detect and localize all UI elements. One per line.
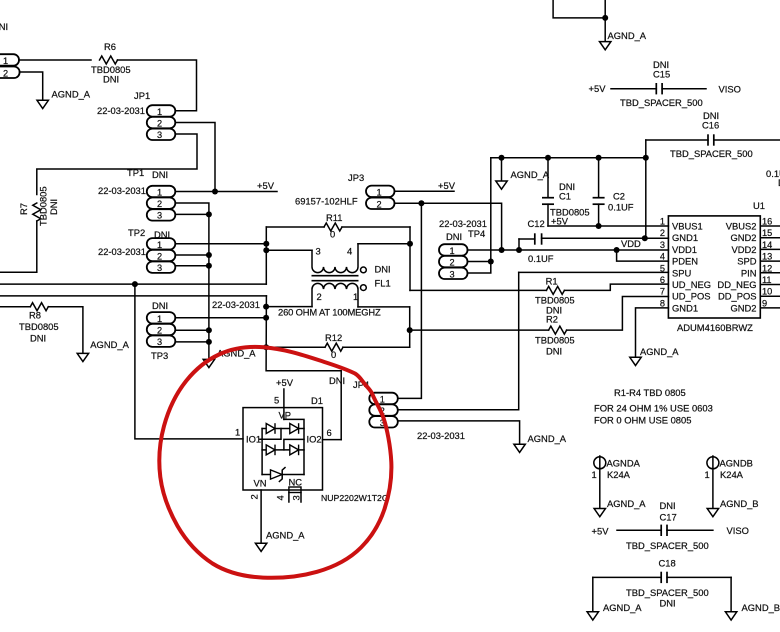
ground AGND_A (U1 pin8) (630, 357, 641, 365)
svg-text:2: 2 (377, 199, 382, 209)
resistor R7 (vertical) (33, 203, 41, 221)
svg-text:TBD_SPACER_500: TBD_SPACER_500 (620, 97, 703, 108)
ground AGND_A (top right) (600, 42, 611, 50)
junction TP2 pin1 / column (263, 241, 269, 247)
junction VDD rail / PDEN drop (614, 247, 620, 253)
svg-text:DNI: DNI (0, 21, 8, 32)
U1 left pin labels (672, 221, 711, 314)
svg-text:DNI: DNI (446, 231, 462, 242)
svg-text:GND2: GND2 (730, 232, 756, 243)
diode D1b (290, 423, 299, 434)
diode D1a (262, 428, 266, 430)
svg-text:AGND_A: AGND_A (608, 30, 647, 41)
svg-text:TBD_SPACER_500: TBD_SPACER_500 (626, 587, 709, 598)
svg-text:AGND_A: AGND_A (607, 498, 646, 509)
svg-text:VISO: VISO (727, 525, 749, 536)
wire TP4 pin3 / AGND column (468, 158, 491, 273)
red marker circle around D1 (159, 347, 391, 578)
resistor R6 (100, 56, 118, 64)
svg-text:2: 2 (450, 258, 455, 268)
svg-text:1: 1 (705, 469, 710, 480)
wire TP4 pin2 to AGND column (468, 261, 491, 263)
wire TP3 pin1 to lower vertical (175, 317, 266, 319)
wire top-right corner structure (553, 0, 605, 18)
svg-text:2: 2 (157, 119, 162, 129)
svg-text:12: 12 (762, 263, 772, 273)
svg-text:VBUS2: VBUS2 (726, 221, 757, 232)
svg-text:0: 0 (330, 229, 335, 240)
resistor R1 (546, 286, 564, 294)
svg-text:TBD0805: TBD0805 (38, 186, 49, 226)
svg-text:1: 1 (3, 56, 8, 66)
svg-text:DNI: DNI (48, 199, 59, 215)
JP4 pin 1 box (369, 393, 398, 404)
svg-text:R11: R11 (326, 212, 343, 223)
svg-text:22-03-2031: 22-03-2031 (98, 185, 146, 196)
ground AGND_A (R8) (77, 353, 88, 361)
svg-text:1: 1 (353, 291, 358, 302)
svg-text:14: 14 (762, 240, 772, 250)
svg-text:1: 1 (157, 107, 162, 117)
svg-text:4: 4 (660, 252, 665, 262)
svg-text:FOR 24 OHM 1% USE 0603: FOR 24 OHM 1% USE 0603 (594, 403, 713, 414)
svg-text:AGND_A: AGND_A (90, 339, 129, 350)
svg-text:GND1: GND1 (672, 232, 698, 243)
svg-text:4: 4 (275, 495, 286, 500)
svg-text:8: 8 (660, 298, 665, 308)
svg-text:3: 3 (291, 495, 302, 500)
svg-text:6: 6 (327, 427, 332, 438)
svg-text:C17: C17 (660, 512, 677, 523)
U1 left pin numbers (660, 217, 665, 309)
svg-text:+5V: +5V (438, 180, 456, 191)
svg-text:+5V: +5V (592, 526, 610, 537)
wire lower data line to R2 (410, 329, 549, 331)
TP1 pin 2 box (147, 198, 176, 209)
junction FL1 pin3 / column (263, 247, 269, 253)
svg-text:3: 3 (660, 240, 665, 250)
svg-text:TBD0805: TBD0805 (19, 321, 59, 332)
resistor R2 (549, 326, 567, 334)
wire TP1 pin2/pin3 vertical chain (175, 203, 209, 359)
svg-text:JP3: JP3 (348, 172, 364, 183)
svg-text:R2: R2 (546, 314, 558, 325)
svg-text:VISO: VISO (719, 84, 741, 95)
terminal AGNDB K24A (705, 456, 753, 508)
svg-text:K24A: K24A (720, 469, 744, 480)
svg-text:VN: VN (254, 478, 267, 489)
svg-text:IO1: IO1 (246, 433, 261, 444)
svg-text:VBUS1: VBUS1 (672, 221, 703, 232)
svg-text:+5V: +5V (276, 377, 294, 388)
wire to AGND symbol (501, 158, 503, 181)
svg-text:C15: C15 (653, 69, 670, 80)
junction FL1 pin2 / column (263, 304, 269, 310)
svg-text:+5V: +5V (257, 180, 275, 191)
wire JP4 pin2 to SPU (398, 272, 519, 409)
svg-text:2: 2 (317, 291, 322, 302)
wire FL1 pin1 (358, 306, 410, 308)
junction JP3 pin2 / JP4 pin1 riser (418, 200, 424, 206)
svg-text:C2: C2 (613, 191, 625, 202)
svg-text:R12: R12 (325, 332, 342, 343)
JP1 pin 2 box (147, 117, 176, 128)
svg-text:2: 2 (249, 494, 260, 499)
svg-text:22-03-2031: 22-03-2031 (212, 299, 260, 310)
svg-text:C12: C12 (528, 218, 545, 229)
svg-text:3: 3 (157, 211, 162, 221)
U1 right pin labels (717, 221, 756, 314)
svg-text:GND2: GND2 (730, 302, 756, 313)
wire JP1 pin2 down to +5V rail (175, 123, 215, 192)
ground AGND_B (AGNDB) (707, 509, 718, 517)
JP1 pin 3 box (147, 129, 176, 140)
JP1 pin 1 box (147, 105, 176, 116)
svg-text:22-03-2031: 22-03-2031 (98, 246, 146, 257)
wire to ground (604, 18, 606, 41)
svg-text:1: 1 (450, 246, 455, 256)
wire R8 to ground (48, 307, 83, 354)
svg-text:SPD: SPD (737, 256, 757, 267)
wire upper data rail (0, 283, 266, 285)
wire JP3 pin2 to VDD rail (395, 203, 502, 250)
svg-text:2: 2 (660, 228, 665, 238)
ground AGND_A (JP4 pin3) (514, 444, 525, 452)
svg-text:13: 13 (762, 252, 772, 262)
svg-text:1: 1 (377, 187, 382, 197)
svg-text:R7: R7 (18, 203, 29, 215)
wire FL1 pin4 (358, 243, 410, 245)
svg-text:DD_POS: DD_POS (718, 291, 757, 302)
TP2 pin 1 box (147, 238, 176, 249)
svg-text:7: 7 (660, 287, 665, 297)
VP node wire (284, 419, 304, 474)
svg-text:AGND_A: AGND_A (511, 169, 550, 180)
node upper-left column (R11/FL1 pin3/TP2 pin1/upper rail) (265, 227, 267, 284)
junction R11 right / FL1 pin4 (409, 227, 411, 290)
svg-text:NUP2202W1T2G: NUP2202W1T2G (321, 493, 389, 503)
wire lower data rail (0, 295, 266, 297)
svg-text:1: 1 (157, 240, 162, 250)
svg-text:VDD1: VDD1 (672, 244, 697, 255)
ground AGND_A (C18 left) (587, 612, 598, 620)
svg-text:DNI: DNI (375, 264, 391, 275)
U1 right pin wires 16..9 (760, 226, 780, 308)
svg-text:3: 3 (157, 263, 162, 273)
resistor R8 (0, 306, 30, 308)
svg-text:VDD2: VDD2 (731, 244, 756, 255)
svg-text:1: 1 (157, 188, 162, 198)
svg-text:22-03-2031: 22-03-2031 (97, 105, 145, 116)
svg-text:AGNDB: AGNDB (720, 458, 753, 469)
wire +5V rail to U1 pin1 (548, 225, 668, 227)
node FL1 pin1/R12 right/lower data line (409, 307, 411, 347)
svg-text:TP4: TP4 (468, 228, 485, 239)
junction VDD rail / C12 left (516, 247, 522, 253)
svg-text:+5V: +5V (589, 83, 607, 94)
svg-text:15: 15 (762, 228, 772, 238)
diode D1c (262, 449, 266, 451)
svg-text:C18: C18 (659, 558, 676, 569)
svg-text:0.1UF: 0.1UF (608, 202, 634, 213)
wire TP2 pin3 (175, 265, 209, 267)
svg-text:DNI: DNI (30, 333, 46, 344)
ground AGND_A (AGNDA) (594, 509, 605, 517)
svg-text:DNI: DNI (103, 74, 119, 85)
D1 box (243, 408, 323, 490)
svg-text:4: 4 (347, 246, 352, 257)
junction FL1 pin4 / R11 right (407, 241, 413, 247)
wire TP4 pin1 VDD rail to U1 pin3 (468, 249, 669, 251)
svg-text:C1: C1 (559, 191, 571, 202)
svg-text:+5V: +5V (551, 216, 569, 227)
svg-text:ADUM4160BRWZ: ADUM4160BRWZ (677, 322, 753, 333)
svg-text:FOR 0 OHM USE 0805: FOR 0 OHM USE 0805 (594, 415, 691, 426)
svg-text:AGND_A: AGND_A (52, 89, 91, 100)
svg-text:NC: NC (289, 477, 303, 488)
wire upper data line to R1 (410, 289, 546, 291)
svg-text:R1: R1 (546, 276, 558, 287)
junction R12 left / column (263, 344, 269, 350)
svg-text:D1: D1 (311, 395, 323, 406)
junction FL1 pin1 / lower data line (407, 327, 413, 333)
svg-text:AGND_A: AGND_A (528, 433, 567, 444)
svg-text:DD_NEG: DD_NEG (717, 279, 756, 290)
svg-text:10: 10 (762, 287, 772, 297)
wire pin1 to R6 (19, 59, 91, 61)
wire R2 to U1 pin7 (567, 297, 669, 331)
wire D1 pin5 (283, 389, 285, 419)
wire C18 left to ground (592, 577, 594, 611)
svg-text:IO2: IO2 (307, 433, 322, 444)
TP3 pin 3 box (147, 336, 176, 347)
wire R6 to JP1 pin 1 (118, 60, 197, 111)
svg-text:DNI: DNI (152, 300, 168, 311)
wire JP1 pin3 to R7 top (37, 134, 197, 195)
svg-text:1: 1 (592, 469, 597, 480)
svg-text:0.1UF: 0.1UF (528, 253, 554, 264)
TP1 pin 3 box (147, 209, 176, 220)
svg-text:2: 2 (3, 69, 8, 79)
svg-text:AGNDA: AGNDA (607, 458, 641, 469)
svg-text:AGND_B: AGND_B (720, 498, 759, 509)
wire JP4 pin1 riser (398, 203, 422, 398)
ground AGND_A (TP chain) (203, 359, 214, 367)
svg-text:TBD0805: TBD0805 (535, 335, 575, 346)
junction VDD rail / JP3 pin2 drop (499, 247, 505, 253)
svg-text:9: 9 (762, 298, 767, 308)
choke FL1 (312, 244, 391, 307)
TP2 pin 3 box (147, 262, 176, 273)
TP2 pin 2 box (147, 250, 176, 261)
svg-text:1: 1 (157, 314, 162, 324)
svg-text:DNI: DNI (546, 346, 562, 357)
wire TP1 pin3 (175, 213, 209, 215)
TP1 pin 1 box (147, 186, 176, 197)
wire TP2 pin1 to FL1 column (175, 243, 266, 245)
svg-text:U1: U1 (753, 200, 765, 211)
wire JP3 pin1 to +5V (395, 190, 455, 192)
svg-text:2: 2 (157, 251, 162, 261)
svg-text:3: 3 (316, 246, 321, 257)
svg-text:AGND_A: AGND_A (640, 346, 679, 357)
svg-text:2: 2 (157, 325, 162, 335)
svg-text:R1-R4 TBD 0805: R1-R4 TBD 0805 (614, 387, 686, 398)
JP3 pin 2 box (366, 198, 395, 209)
connector J? pin 2 box (0, 67, 20, 79)
svg-text:UD_NEG: UD_NEG (672, 279, 711, 290)
ground AGND_A (D1) (255, 543, 266, 551)
U1 right pin numbers (762, 217, 772, 309)
svg-text:2: 2 (157, 199, 162, 209)
svg-text:22-03-2031: 22-03-2031 (417, 430, 465, 441)
wire FL1 pin2 (266, 306, 312, 308)
TP3 pin 1 box (147, 312, 176, 323)
TP4 pin 1 box (439, 244, 468, 255)
svg-text:0: 0 (331, 349, 336, 360)
svg-text:DNI: DNI (660, 598, 676, 609)
junction TP3 pin1 / column (263, 315, 269, 321)
diode D1d (290, 445, 299, 456)
resistor R12 (266, 346, 325, 348)
svg-text:3: 3 (157, 130, 162, 140)
svg-text:AGND_A: AGND_A (603, 602, 642, 613)
svg-text:K24A: K24A (607, 469, 631, 480)
zener D1z (262, 474, 270, 476)
TP4 pin 2 box (439, 256, 468, 267)
svg-text:UD_POS: UD_POS (672, 291, 711, 302)
svg-text:DNI: DNI (329, 375, 345, 386)
svg-text:3: 3 (450, 269, 455, 279)
node lower-left column (lower rail/FL1 pin2/TP3 pin1/R12/D1 IO2) (266, 296, 341, 440)
wire AGND top rail (491, 157, 646, 159)
left rail inside D1 (261, 429, 263, 475)
wire TP3 pin3 (175, 341, 209, 343)
svg-text:TP3: TP3 (151, 350, 168, 361)
svg-text:TP2: TP2 (128, 227, 145, 238)
wire pin2 to ground (20, 72, 43, 100)
wire C18 right to ground (730, 577, 732, 611)
svg-text:DNI: DNI (152, 169, 168, 180)
wire R1 to U1 pin6 (564, 284, 668, 290)
svg-text:16: 16 (762, 217, 772, 227)
svg-text:PDEN: PDEN (672, 256, 698, 267)
wire TP1 pin1 +5V rail (175, 191, 277, 193)
svg-text:GND1: GND1 (672, 302, 698, 313)
svg-text:AGND_B: AGND_B (742, 602, 780, 613)
JP4 pin 3 box (369, 416, 398, 427)
svg-text:260 OHM AT 100MEGHZ: 260 OHM AT 100MEGHZ (278, 307, 381, 318)
svg-text:TBD_SPACER_500: TBD_SPACER_500 (626, 540, 709, 551)
svg-text:5: 5 (274, 395, 279, 406)
wire U1 pin8 GND1 to ground (636, 308, 669, 357)
svg-text:SPU: SPU (672, 267, 692, 278)
resistor R11 (266, 226, 324, 228)
wire R7 bottom to left edge (0, 221, 37, 272)
wire VDD to U1 pin4 (617, 250, 669, 261)
svg-text:R8: R8 (29, 310, 41, 321)
svg-text:TP1: TP1 (127, 167, 144, 178)
svg-text:1: 1 (235, 427, 240, 438)
svg-text:PIN: PIN (741, 267, 757, 278)
TP3 pin 2 box (147, 324, 176, 335)
ground AGND_A (C1/C2 rail) (496, 181, 507, 189)
svg-text:1: 1 (380, 394, 385, 404)
ground AGND_B (C18 right) (725, 612, 736, 620)
svg-text:11: 11 (762, 275, 772, 285)
JP4 pin 2 box (369, 404, 398, 415)
junction C12 right / C16 drop (642, 235, 648, 241)
svg-text:AGND_A: AGND_A (266, 529, 305, 540)
TP4 pin 3 box (439, 268, 468, 279)
svg-text:FL1: FL1 (375, 278, 391, 289)
junction AGND drop (499, 155, 505, 161)
ground AGND_A (left connector) (37, 100, 48, 108)
D1 pin6 wire (323, 439, 342, 441)
wire TP2 pin2 (175, 254, 209, 256)
svg-text:1: 1 (660, 217, 665, 227)
junction upper rail / D1 feed (132, 281, 138, 287)
connector J? pin 1 box (0, 54, 19, 65)
junction JP1pin2/TP1 rail (212, 189, 218, 195)
svg-text:R6: R6 (104, 41, 116, 52)
svg-text:69157-102HLF: 69157-102HLF (295, 196, 358, 207)
svg-text:C16: C16 (702, 120, 719, 131)
wire TP3 pin2 (175, 329, 209, 331)
svg-text:DNI: DNI (660, 500, 676, 511)
svg-text:TBD_SPACER_500: TBD_SPACER_500 (670, 148, 753, 159)
D1 pin2 wire to ground (260, 490, 262, 543)
svg-text:VDD: VDD (621, 238, 641, 249)
D1 NC pins 4,3 (275, 487, 302, 502)
svg-text:3: 3 (157, 337, 162, 347)
wire C16 AGND drop (645, 140, 647, 238)
JP3 pin 1 box (366, 186, 395, 197)
wire D1 IO1 feed (135, 284, 243, 439)
terminal AGNDA K24A (592, 456, 641, 508)
wire U1 pin5 SPU (519, 271, 669, 273)
svg-text:JP1: JP1 (134, 90, 150, 101)
wire FL1 pin3 (266, 249, 312, 251)
wire JP4 pin3 to ground (398, 421, 520, 444)
